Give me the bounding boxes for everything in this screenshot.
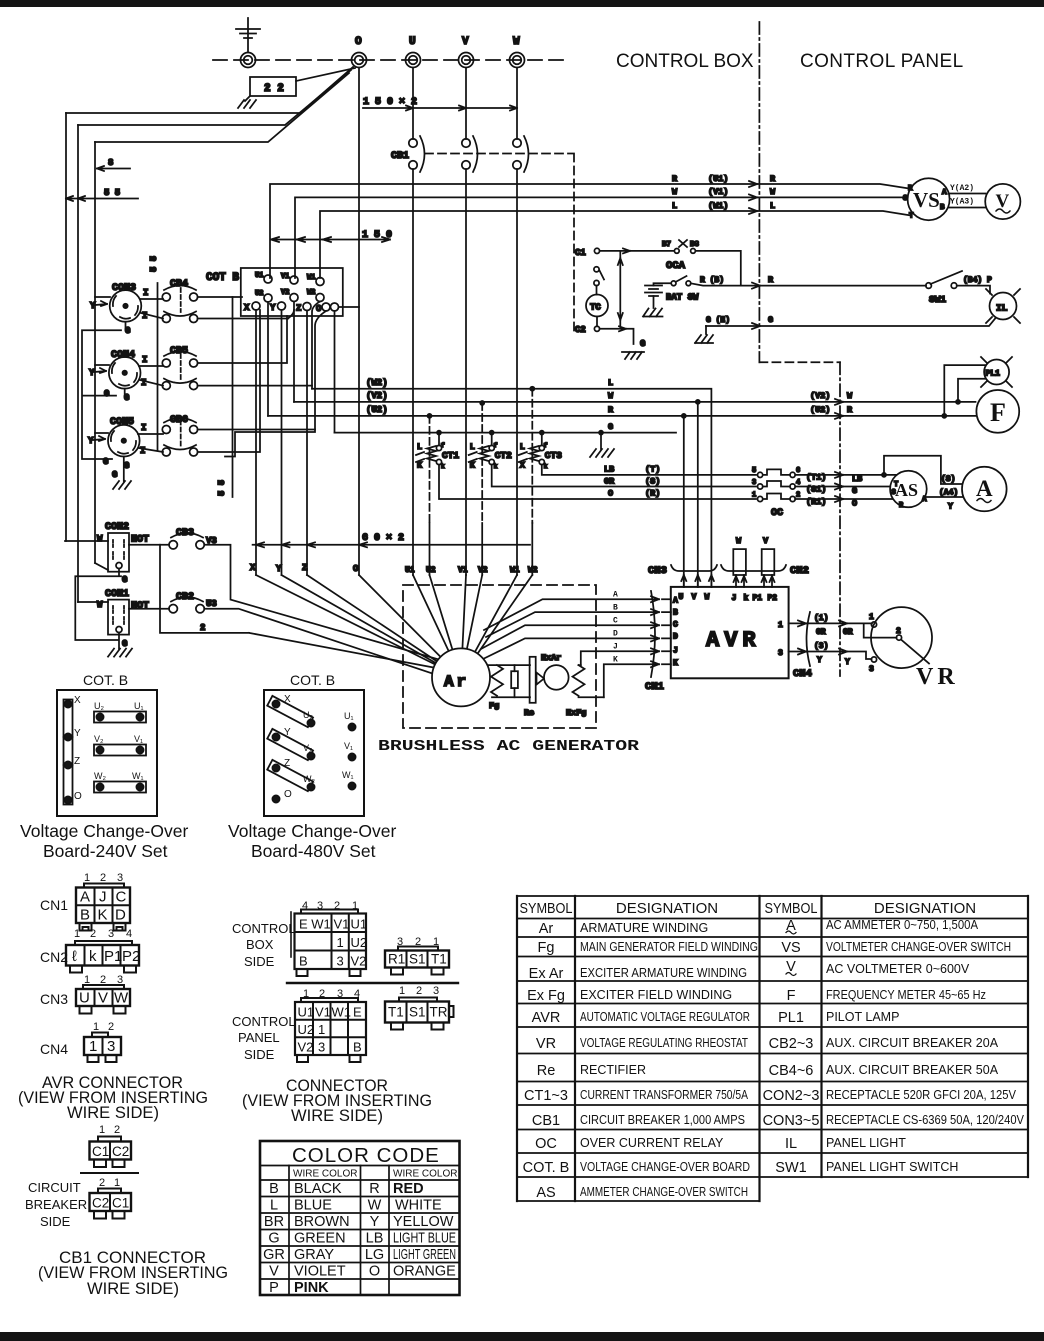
wire O column xyxy=(358,68,360,575)
terminal (earth terminal) xyxy=(241,53,256,68)
current transformer CT1 xyxy=(416,414,459,523)
winding Fg main field xyxy=(488,665,530,711)
wire C2 to ground xyxy=(600,326,634,344)
wire O fan left 1 xyxy=(66,67,353,113)
svg-text:BOX: BOX xyxy=(246,937,274,952)
wire CB3 V3 to generator xyxy=(204,545,437,659)
svg-text:Voltage Change-Over: Voltage Change-Over xyxy=(228,821,396,841)
svg-text:Y(A2): Y(A2) xyxy=(950,184,974,193)
svg-text:O: O xyxy=(852,499,857,509)
svg-text:J: J xyxy=(613,643,618,652)
wire J to AVR xyxy=(581,648,671,665)
svg-text:1: 1 xyxy=(778,621,783,630)
label control panel side xyxy=(232,1014,296,1062)
svg-text:2 2: 2 2 xyxy=(264,83,284,95)
wire C to AVR xyxy=(481,622,671,649)
svg-text:S1: S1 xyxy=(409,952,426,967)
svg-text:D: D xyxy=(613,630,618,639)
svg-text:U2: U2 xyxy=(426,566,436,575)
svg-text:Re: Re xyxy=(524,708,534,718)
wire left vertical 1 xyxy=(65,113,67,541)
wire AS to A meter (A4) xyxy=(925,489,963,512)
table symbol designation xyxy=(517,896,1028,1201)
circuit breaker CB6 xyxy=(162,415,197,456)
svg-text:Y(A3): Y(A3) xyxy=(950,198,974,207)
svg-text:I: I xyxy=(142,311,147,321)
svg-text:A: A xyxy=(80,889,90,906)
svg-text:P: P xyxy=(269,1280,279,1296)
svg-text:BLUE: BLUE xyxy=(294,1198,332,1214)
meter VS voltmeter change-over switch xyxy=(903,178,950,220)
svg-text:Re: Re xyxy=(537,1063,556,1079)
svg-text:U1: U1 xyxy=(351,917,368,932)
wire CON1 hot to CB2 xyxy=(78,602,169,609)
svg-text:VS: VS xyxy=(781,940,800,956)
svg-text:AUTOMATIC VOLTAGE REGULATOR: AUTOMATIC VOLTAGE REGULATOR xyxy=(580,1010,750,1024)
svg-text:R: R xyxy=(770,174,776,184)
wire CON2 CON1 ground loop xyxy=(75,569,121,649)
svg-text:B: B xyxy=(353,1040,362,1055)
label AVR connector caption xyxy=(18,1073,208,1122)
wire control box panel divider xyxy=(758,22,760,362)
svg-text:L: L xyxy=(470,442,475,452)
svg-text:U: U xyxy=(79,990,90,1007)
svg-text:P1: P1 xyxy=(753,594,763,603)
wire board Z drop xyxy=(306,311,308,576)
svg-text:W: W xyxy=(672,187,678,197)
svg-text:F: F xyxy=(990,398,1006,427)
ground hatch under 22 box xyxy=(238,100,256,108)
svg-text:Y: Y xyxy=(270,303,276,313)
svg-text:CON2: CON2 xyxy=(105,522,129,533)
svg-text:R: R xyxy=(672,174,678,184)
svg-text:Board-480V Set: Board-480V Set xyxy=(251,841,376,861)
svg-text:IL: IL xyxy=(996,303,1008,314)
svg-text:ExFg: ExFg xyxy=(566,708,586,718)
terminal O xyxy=(352,36,367,68)
wire CT secondaries to G bus xyxy=(439,433,542,446)
svg-text:PANEL: PANEL xyxy=(238,1030,280,1045)
svg-text:S1: S1 xyxy=(409,1005,426,1020)
svg-text:VOLTAGE CHANGE-OVER BOARD: VOLTAGE CHANGE-OVER BOARD xyxy=(580,1160,750,1174)
wire PL1 taps xyxy=(944,365,985,416)
svg-text:(U2): (U2) xyxy=(810,405,830,415)
svg-text:Y: Y xyxy=(89,368,95,378)
label R (U1) xyxy=(672,174,776,187)
svg-text:V: V xyxy=(269,1264,279,1280)
wire board W2 tap to L bus xyxy=(312,302,320,389)
svg-text:J: J xyxy=(732,594,737,603)
svg-text:G: G xyxy=(608,422,613,432)
circuit breaker CB5 xyxy=(162,346,197,390)
divider line CB1 xyxy=(81,1172,138,1174)
wire TC bypass vertical xyxy=(618,251,623,327)
svg-text:V2: V2 xyxy=(298,1040,314,1055)
wire O fan left 2 xyxy=(78,70,351,125)
svg-text:5 5: 5 5 xyxy=(149,256,159,272)
dimension 8 xyxy=(97,158,130,171)
svg-text:Z: Z xyxy=(296,304,301,314)
svg-text:ORANGE: ORANGE xyxy=(393,1264,456,1280)
svg-text:SIDE: SIDE xyxy=(244,1047,275,1062)
svg-text:U1: U1 xyxy=(405,566,415,575)
svg-text:R: R xyxy=(768,275,774,285)
svg-text:2: 2 xyxy=(108,1021,114,1033)
svg-text:EXCITER FIELD WINDING: EXCITER FIELD WINDING xyxy=(580,988,732,1002)
svg-text:LB: LB xyxy=(366,1231,384,1247)
svg-text:Z: Z xyxy=(74,756,80,767)
wire CB2 U3 to generator xyxy=(204,609,437,675)
svg-text:W: W xyxy=(114,990,129,1007)
label voltage change-over board 480V xyxy=(228,821,396,861)
svg-text:V₂: V₂ xyxy=(94,734,104,744)
svg-text:6 0 × 2: 6 0 × 2 xyxy=(362,533,404,544)
svg-text:WHITE: WHITE xyxy=(395,1198,442,1214)
svg-text:O: O xyxy=(608,489,613,499)
label CB1 connector caption xyxy=(38,1248,228,1298)
svg-text:CN4: CN4 xyxy=(40,1041,68,1057)
wire R sense bus to VS xyxy=(270,184,909,278)
svg-text:Ex Fg: Ex Fg xyxy=(527,988,565,1004)
svg-text:YELLOW: YELLOW xyxy=(393,1214,454,1230)
wire CB collector rail xyxy=(232,297,234,497)
svg-text:GR: GR xyxy=(843,628,853,637)
wire R(B) line xyxy=(691,275,926,289)
svg-text:5 5: 5 5 xyxy=(104,188,120,198)
svg-text:(S): (S) xyxy=(941,475,955,484)
terminal C1 xyxy=(575,248,600,258)
svg-text:L: L xyxy=(770,201,775,211)
svg-text:2: 2 xyxy=(416,985,422,997)
ground CON1 xyxy=(108,649,132,657)
wire bus labels ABCDJK xyxy=(613,591,618,665)
transformer TC xyxy=(586,286,608,327)
svg-text:Fg: Fg xyxy=(489,701,499,711)
connector CB1 C1C2 xyxy=(90,1124,132,1167)
svg-text:5: 5 xyxy=(752,467,756,475)
svg-text:2: 2 xyxy=(114,1124,120,1136)
rheostat VR xyxy=(864,607,959,690)
svg-text:P1: P1 xyxy=(104,948,122,965)
svg-text:3: 3 xyxy=(108,928,114,940)
svg-text:CB4~6: CB4~6 xyxy=(769,1063,814,1079)
svg-text:TR: TR xyxy=(430,1005,448,1020)
wire AVR pin1 to VR xyxy=(778,614,872,637)
svg-text:(3): (3) xyxy=(814,642,828,651)
svg-text:DESIGNATION: DESIGNATION xyxy=(616,900,718,917)
terminal U xyxy=(406,36,421,68)
wire G bus xyxy=(335,422,677,433)
wire OC to AS G xyxy=(795,484,890,497)
rectifier Re xyxy=(524,657,552,718)
svg-text:f: f xyxy=(494,442,498,449)
svg-text:8: 8 xyxy=(108,158,113,168)
terminal V xyxy=(459,36,474,68)
svg-text:OC: OC xyxy=(771,508,783,519)
svg-text:AS: AS xyxy=(536,1185,555,1201)
svg-text:R (B): R (B) xyxy=(700,276,724,285)
svg-text:BRUSHLESS AC GENERATOR: BRUSHLESS AC GENERATOR xyxy=(378,738,639,755)
wire W drop xyxy=(516,68,518,139)
svg-text:RED: RED xyxy=(393,1181,424,1197)
svg-text:O: O xyxy=(353,564,359,574)
svg-text:V2: V2 xyxy=(281,289,289,297)
svg-text:CONTROL: CONTROL xyxy=(232,1014,296,1029)
wire CB4 outputs xyxy=(198,297,294,319)
svg-text:X: X xyxy=(74,695,81,706)
wire U drop xyxy=(412,68,414,139)
terminal C2 xyxy=(575,325,600,335)
svg-text:O: O xyxy=(369,1264,380,1280)
svg-text:AC VOLTMETER 0~600V: AC VOLTMETER 0~600V xyxy=(826,962,970,976)
svg-text:CB4: CB4 xyxy=(170,279,188,290)
svg-text:BROWN: BROWN xyxy=(294,1214,350,1230)
lamp PL1 pilot lamp xyxy=(981,357,1012,387)
wire O to 22 box xyxy=(296,68,355,81)
connector T1 S1 TR xyxy=(385,985,454,1030)
circuit breaker CB2 xyxy=(169,592,217,613)
svg-text:SYMBOL: SYMBOL xyxy=(520,901,573,917)
svg-text:k: k xyxy=(89,948,97,965)
svg-text:PANEL LIGHT: PANEL LIGHT xyxy=(826,1136,906,1150)
svg-text:G: G xyxy=(104,389,109,399)
wire board V2 tap to W bus xyxy=(293,302,295,402)
wire V1 column xyxy=(465,169,467,575)
svg-text:U₂: U₂ xyxy=(94,701,104,711)
ground C2 xyxy=(622,339,645,359)
svg-text:GR: GR xyxy=(604,477,615,487)
svg-text:W₂: W₂ xyxy=(94,771,106,781)
svg-text:Z: Z xyxy=(284,758,290,769)
svg-text:W₁: W₁ xyxy=(342,770,354,780)
svg-text:SW1: SW1 xyxy=(775,1160,806,1176)
svg-text:J: J xyxy=(99,889,107,906)
svg-text:Ar: Ar xyxy=(444,673,469,691)
svg-text:VOLTMETER CHANGE-OVER SWITCH: VOLTMETER CHANGE-OVER SWITCH xyxy=(826,940,1011,954)
svg-text:G: G xyxy=(268,1231,279,1247)
svg-text:CB1: CB1 xyxy=(532,1113,560,1129)
svg-text:CN2: CN2 xyxy=(790,565,809,577)
connector CON3 xyxy=(90,283,163,336)
wire L bus (W2) xyxy=(312,378,711,587)
svg-text:A: A xyxy=(976,476,993,501)
svg-text:L: L xyxy=(417,442,422,452)
svg-text:WIRE SIDE): WIRE SIDE) xyxy=(291,1106,383,1125)
svg-text:R1: R1 xyxy=(388,952,405,967)
svg-text:K: K xyxy=(673,659,678,668)
svg-text:CN1: CN1 xyxy=(40,897,68,913)
pin arrows CN3 xyxy=(681,575,714,587)
wire GR bus (S) xyxy=(492,465,756,487)
svg-text:O: O xyxy=(355,36,362,48)
svg-text:A: A xyxy=(942,189,947,197)
wire K to AVR xyxy=(604,661,671,697)
svg-text:f: f xyxy=(544,442,548,449)
wire W1 column xyxy=(516,169,518,575)
svg-text:B: B xyxy=(613,604,618,613)
ground G(E) xyxy=(695,326,713,343)
svg-text:CT3: CT3 xyxy=(545,450,562,461)
svg-text:k: k xyxy=(494,463,498,470)
svg-text:K: K xyxy=(470,461,476,471)
dimension 5 5 xyxy=(66,188,138,201)
divider line connectors xyxy=(287,982,458,984)
label W (V1) xyxy=(672,187,776,200)
svg-text:COLOR CODE: COLOR CODE xyxy=(292,1144,440,1167)
connector CON2 xyxy=(97,522,149,585)
svg-text:(U1): (U1) xyxy=(708,174,728,184)
svg-text:C: C xyxy=(613,617,618,626)
svg-text:FREQUENCY METER 45~65 Hz: FREQUENCY METER 45~65 Hz xyxy=(826,988,986,1002)
svg-text:U: U xyxy=(409,36,416,48)
svg-text:V₁: V₁ xyxy=(134,734,143,744)
svg-text:VS: VS xyxy=(913,188,940,212)
svg-text:1: 1 xyxy=(752,492,756,500)
wire generator fan xyxy=(256,575,532,677)
svg-text:3: 3 xyxy=(869,665,874,674)
svg-text:C1: C1 xyxy=(575,248,586,258)
svg-text:VOLTAGE REGULATING RHEOSTAT: VOLTAGE REGULATING RHEOSTAT xyxy=(580,1036,748,1050)
svg-text:Y: Y xyxy=(88,436,94,446)
wire OC to AS LB xyxy=(795,472,897,484)
svg-text:P2: P2 xyxy=(122,948,140,965)
svg-text:U₂: U₂ xyxy=(303,710,313,720)
svg-text:T: T xyxy=(894,481,898,489)
label voltage change-over board 240V xyxy=(20,821,188,861)
wire OC to AS O xyxy=(795,496,897,509)
svg-text:V1: V1 xyxy=(458,566,468,575)
current transformer CT3 xyxy=(519,387,562,523)
svg-text:C2: C2 xyxy=(112,1144,129,1159)
svg-text:O: O xyxy=(316,304,322,314)
svg-text:COT. B: COT. B xyxy=(523,1160,570,1176)
svg-text:C1: C1 xyxy=(112,1196,129,1211)
wire W bus (V2) xyxy=(294,391,976,587)
svg-text:CURRENT TRANSFORMER 750/5A: CURRENT TRANSFORMER 750/5A xyxy=(580,1088,749,1102)
svg-text:IL: IL xyxy=(785,1136,797,1152)
plug V xyxy=(762,536,775,587)
circuit breaker CB4 xyxy=(162,279,197,323)
svg-text:LIGHT BLUE: LIGHT BLUE xyxy=(393,1231,456,1247)
wire AS loop to A meter (S) xyxy=(882,456,963,484)
svg-text:(R1): (R1) xyxy=(806,497,826,507)
svg-text:(1): (1) xyxy=(814,614,828,623)
svg-text:Ar: Ar xyxy=(539,921,554,937)
svg-text:2: 2 xyxy=(896,627,901,636)
svg-text:HOT: HOT xyxy=(131,601,149,612)
connector CN1 bracket xyxy=(645,591,664,693)
svg-text:CB2~3: CB2~3 xyxy=(769,1036,814,1052)
svg-text:E W1: E W1 xyxy=(299,917,331,932)
svg-text:(W1): (W1) xyxy=(708,201,728,211)
svg-text:1: 1 xyxy=(399,985,405,997)
wire board U2 tap to R bus xyxy=(267,302,269,416)
svg-text:I: I xyxy=(142,355,147,365)
wire U1 column xyxy=(412,169,414,575)
wire OCA to R(B) xyxy=(695,251,740,286)
ground symbol (top earth) xyxy=(236,18,260,52)
svg-text:Y: Y xyxy=(276,564,282,574)
svg-text:f: f xyxy=(441,442,445,449)
wire aux loop 2 xyxy=(160,545,436,668)
svg-text:G (E): G (E) xyxy=(706,316,730,325)
svg-text:C: C xyxy=(116,889,127,906)
svg-text:B: B xyxy=(269,1181,279,1197)
connector CON1 xyxy=(97,589,149,649)
svg-text:W: W xyxy=(368,1198,382,1214)
svg-text:K: K xyxy=(417,461,423,471)
wire C1 to OCA xyxy=(600,248,674,253)
wire O bus (R) xyxy=(439,465,756,499)
svg-text:L: L xyxy=(672,201,677,211)
svg-text:k: k xyxy=(544,463,548,470)
svg-text:WIRE SIDE): WIRE SIDE) xyxy=(67,1103,159,1122)
svg-text:3: 3 xyxy=(433,985,439,997)
svg-text:A: A xyxy=(613,591,618,600)
svg-text:T1: T1 xyxy=(388,1005,404,1020)
svg-text:SIDE: SIDE xyxy=(244,954,275,969)
svg-text:1: 1 xyxy=(337,935,344,950)
svg-text:G: G xyxy=(122,575,127,585)
svg-text:(S1): (S1) xyxy=(806,485,826,495)
svg-text:V1: V1 xyxy=(281,273,289,281)
svg-text:2: 2 xyxy=(100,872,106,884)
svg-text:WIRE COLOR: WIRE COLOR xyxy=(293,1169,357,1180)
svg-text:(A4): (A4) xyxy=(939,489,958,498)
winding ExFg exciter field xyxy=(566,665,604,718)
svg-text:Y: Y xyxy=(284,727,291,738)
svg-text:BAT SW: BAT SW xyxy=(666,293,699,303)
svg-text:AVR: AVR xyxy=(706,628,761,653)
circuit breaker CB3 xyxy=(169,528,217,549)
board voltage change-over 480V xyxy=(264,672,364,816)
dimension 60x2 xyxy=(253,533,530,547)
svg-text:I: I xyxy=(140,446,145,456)
wire B to AVR xyxy=(486,609,671,637)
wire AVR pin3 to VR xyxy=(778,642,872,667)
connector CN3 xyxy=(40,974,130,1014)
svg-text:BLACK: BLACK xyxy=(294,1181,342,1197)
svg-text:G: G xyxy=(768,315,773,325)
svg-text:ℓ: ℓ xyxy=(72,948,77,965)
svg-text:K: K xyxy=(613,656,618,665)
svg-text:CB1: CB1 xyxy=(391,151,409,162)
svg-text:T1: T1 xyxy=(431,952,447,967)
svg-text:COT. B: COT. B xyxy=(83,672,128,688)
svg-text:COT B: COT B xyxy=(206,272,239,284)
wire board X drop xyxy=(255,310,257,575)
svg-text:WIRE SIDE): WIRE SIDE) xyxy=(87,1279,179,1298)
svg-text:AC AMMETER 0~750, 1,500A: AC AMMETER 0~750, 1,500A xyxy=(826,918,979,932)
contact pair TC xyxy=(594,267,604,286)
svg-text:COT. B: COT. B xyxy=(290,672,335,688)
svg-text:Y: Y xyxy=(370,1214,380,1230)
wire V drop xyxy=(465,68,467,139)
svg-text:AVR: AVR xyxy=(532,1010,561,1026)
svg-text:CON2~3: CON2~3 xyxy=(763,1088,820,1104)
scan border bar top xyxy=(0,0,1044,7)
svg-text:L: L xyxy=(520,442,525,452)
svg-text:VR: VR xyxy=(916,664,959,690)
plug W xyxy=(733,536,746,587)
svg-text:U3: U3 xyxy=(206,599,217,609)
svg-text:(R): (R) xyxy=(645,489,660,499)
svg-text:HOT: HOT xyxy=(131,535,149,546)
svg-text:k: k xyxy=(744,594,749,603)
svg-text:AMMETER CHANGE-OVER SWITCH: AMMETER CHANGE-OVER SWITCH xyxy=(580,1185,748,1199)
svg-text:X: X xyxy=(284,694,291,705)
svg-text:3: 3 xyxy=(778,649,783,658)
